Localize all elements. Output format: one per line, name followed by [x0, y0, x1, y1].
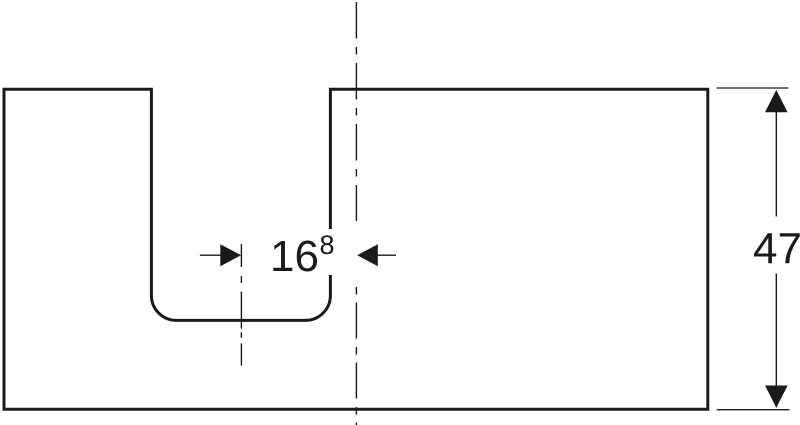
svg-text:8: 8	[320, 230, 335, 260]
svg-text:16: 16	[270, 232, 319, 281]
svg-text:47: 47	[753, 225, 800, 274]
